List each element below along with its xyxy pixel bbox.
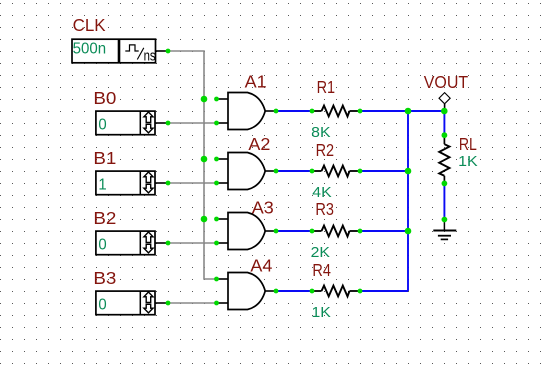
label A1 <box>245 72 267 92</box>
pin dot A3 input top <box>214 217 219 222</box>
svg-text:B2: B2 <box>93 208 116 228</box>
wire B1 to gate A2 input <box>168 182 216 184</box>
svg-text:B3: B3 <box>93 268 116 288</box>
pin dot ground <box>442 217 448 223</box>
pin dot A1 output <box>274 109 279 114</box>
resistor R3 <box>312 226 360 237</box>
svg-text:RL: RL <box>459 134 477 154</box>
pin dot A4 input top <box>214 277 219 282</box>
pin dot B0 output <box>166 121 171 126</box>
pin dot R4 right <box>358 289 363 294</box>
svg-text:A2: A2 <box>248 134 270 154</box>
svg-text:R2: R2 <box>316 140 335 160</box>
pin dot R1 left <box>310 109 315 114</box>
svg-text:VOUT: VOUT <box>424 72 469 92</box>
wire R3 to bus <box>360 230 408 232</box>
svg-text:0: 0 <box>98 237 107 254</box>
svg-text:0: 0 <box>98 117 107 134</box>
label B0 <box>93 88 116 108</box>
resistor RL <box>439 135 449 183</box>
value R3 2K <box>311 244 330 261</box>
svg-text:1K: 1K <box>312 304 331 321</box>
label B1 <box>93 148 116 168</box>
junction clock line A1 <box>201 96 208 103</box>
pin dot R3 right <box>358 229 363 234</box>
svg-text:1K: 1K <box>458 153 478 170</box>
junction bus R3 row <box>405 228 412 235</box>
junction bus R1 row <box>405 108 412 115</box>
pin dot R1 right <box>358 109 363 114</box>
wire A2 output to R2 <box>276 170 312 172</box>
pin dot A2 input bottom <box>214 181 219 186</box>
svg-text:500n: 500n <box>73 41 107 58</box>
pin dot A1 input top <box>214 97 219 102</box>
label A4 <box>250 256 272 276</box>
svg-text:R1: R1 <box>317 77 336 97</box>
logic state source B1 <box>96 171 166 195</box>
pin dot A3 output <box>274 229 279 234</box>
pin dot B2 output <box>166 241 171 246</box>
and-gate A3 <box>216 213 276 250</box>
wire B0 to gate A1 input <box>168 122 216 124</box>
label A3 <box>252 198 274 218</box>
label B2 <box>93 208 116 228</box>
wire A1 output to R1 <box>276 110 312 112</box>
svg-text:A1: A1 <box>245 72 267 92</box>
svg-text:B1: B1 <box>93 148 116 168</box>
wire summing bus vertical <box>407 111 409 291</box>
pin dot A4 input bottom <box>214 301 219 306</box>
svg-text:8K: 8K <box>311 124 330 141</box>
and-gate A2 <box>216 153 276 190</box>
junction VOUT node <box>441 108 448 115</box>
logic state source B2 <box>96 231 166 255</box>
terminal VOUT diamond <box>439 93 450 111</box>
pin dot B3 output <box>166 301 171 306</box>
value R4 1K <box>312 304 331 321</box>
svg-text:CLK: CLK <box>73 15 106 35</box>
label VOUT <box>424 72 469 92</box>
svg-text:A4: A4 <box>250 256 272 276</box>
ground <box>433 220 456 240</box>
pin dot A2 input top <box>214 157 219 162</box>
wire R1 to VOUT node <box>360 110 444 112</box>
wire B2 to gate A3 input <box>168 242 216 244</box>
label R3 <box>315 199 334 219</box>
label B3 <box>93 268 116 288</box>
pin dot A2 output <box>274 169 279 174</box>
svg-text:R3: R3 <box>315 199 334 219</box>
value R2 4K <box>312 184 331 201</box>
label A2 <box>248 134 270 154</box>
resistor R4 <box>312 286 360 297</box>
svg-text:0: 0 <box>98 297 107 314</box>
junction clock line A3 <box>201 216 208 223</box>
svg-text:B0: B0 <box>93 88 116 108</box>
resistor R1 <box>312 106 360 117</box>
label R4 <box>312 260 331 280</box>
value R1 8K <box>311 124 330 141</box>
and-gate A4 <box>216 273 276 310</box>
clock generator CLK 500n <box>72 39 166 64</box>
pin dot R4 left <box>310 289 315 294</box>
junction bus R2 row <box>405 168 412 175</box>
svg-text:R4: R4 <box>312 260 331 280</box>
pin dot R2 right <box>358 169 363 174</box>
label RL <box>459 134 477 154</box>
svg-text:2K: 2K <box>311 244 330 261</box>
and-gate A1 <box>216 93 276 130</box>
wire R4 to bus <box>360 290 408 292</box>
logic state source B0 <box>96 111 166 135</box>
pin dot A4 output <box>274 289 279 294</box>
logic state source B3 <box>96 291 166 315</box>
pin dot A3 input bottom <box>214 241 219 246</box>
pin dot A1 input bottom <box>214 121 219 126</box>
wire B3 to gate A4 input <box>168 302 216 304</box>
wire A3 output to R3 <box>276 230 312 232</box>
label R1 <box>317 77 336 97</box>
pin dot B1 output <box>166 181 171 186</box>
svg-text:A3: A3 <box>252 198 274 218</box>
wire A4 output to R4 <box>276 290 312 292</box>
pin dot R3 left <box>310 229 315 234</box>
wire RL to ground <box>443 183 445 219</box>
label R2 <box>316 140 335 160</box>
pin dot RL bottom <box>442 181 448 187</box>
label CLK <box>73 15 106 35</box>
resistor R2 <box>312 166 360 177</box>
svg-text:1: 1 <box>98 177 106 194</box>
junction clock line A2 <box>201 156 208 163</box>
svg-text:ns: ns <box>144 48 156 65</box>
value RL 1K <box>458 153 478 170</box>
pin dot R2 left <box>310 169 315 174</box>
wire VOUT node to RL <box>443 111 445 135</box>
wire clock to gate inputs <box>168 51 216 279</box>
wire R2 to bus <box>360 170 408 172</box>
pin dot RL top <box>442 132 448 138</box>
pin dot clock output <box>166 49 171 54</box>
